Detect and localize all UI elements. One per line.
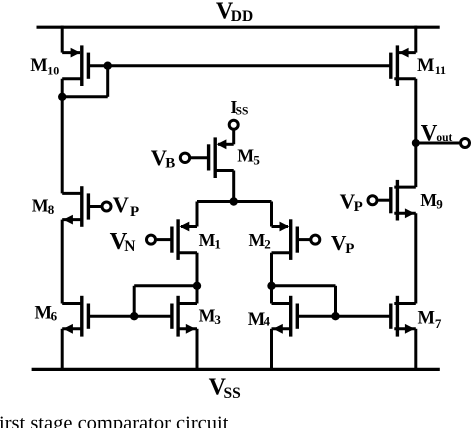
- svg-text:2: 2: [264, 236, 271, 251]
- svg-text:1: 1: [214, 236, 221, 251]
- svg-text:P: P: [354, 199, 363, 215]
- svg-text:M: M: [249, 230, 266, 250]
- svg-text:P: P: [130, 204, 139, 220]
- svg-text:P: P: [345, 241, 354, 257]
- svg-text:9: 9: [436, 197, 443, 212]
- svg-text:M: M: [237, 146, 254, 166]
- svg-text:DD: DD: [231, 8, 253, 25]
- svg-text:out: out: [436, 132, 452, 144]
- svg-text:M: M: [32, 195, 49, 215]
- svg-text:5: 5: [253, 153, 260, 168]
- svg-text:irst stage comparator circuit: irst stage comparator circuit: [0, 413, 229, 428]
- svg-text:3: 3: [214, 312, 221, 327]
- svg-text:6: 6: [51, 309, 58, 324]
- svg-text:B: B: [165, 156, 175, 172]
- svg-text:M: M: [199, 230, 216, 250]
- svg-text:N: N: [124, 238, 135, 255]
- svg-text:7: 7: [435, 316, 442, 331]
- svg-text:M: M: [199, 306, 216, 326]
- svg-text:4: 4: [264, 313, 271, 328]
- svg-text:V: V: [113, 192, 129, 217]
- svg-text:V: V: [421, 120, 438, 145]
- svg-text:SS: SS: [224, 385, 241, 402]
- svg-text:10: 10: [47, 63, 59, 77]
- svg-text:M: M: [420, 190, 437, 210]
- svg-text:M: M: [417, 56, 434, 76]
- svg-text:M: M: [35, 304, 52, 324]
- svg-text:11: 11: [435, 63, 446, 77]
- svg-text:M: M: [418, 308, 435, 328]
- svg-text:M: M: [30, 56, 47, 76]
- svg-text:SS: SS: [236, 106, 249, 118]
- svg-text:8: 8: [48, 202, 55, 217]
